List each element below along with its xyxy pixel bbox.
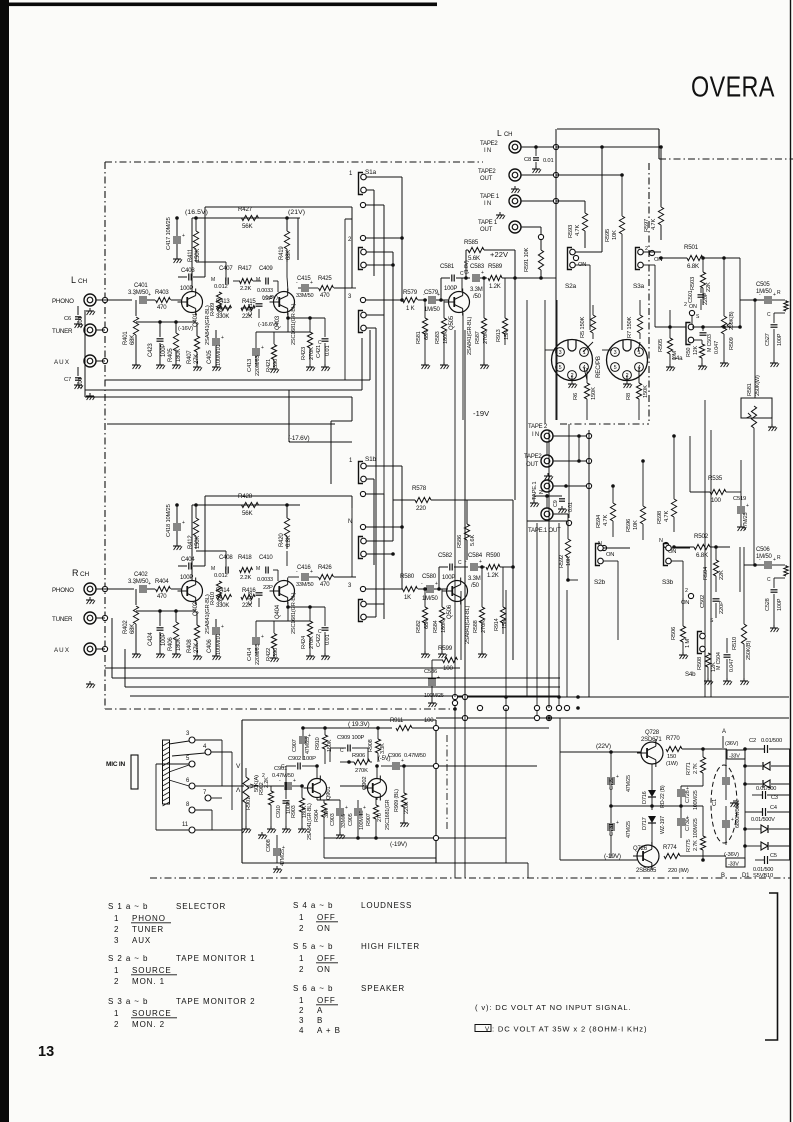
resistor R416 22K xyxy=(241,588,256,609)
svg-text:C8: C8 xyxy=(524,157,531,163)
svg-text:1M/50: 1M/50 xyxy=(424,307,441,313)
wire tape1in L to R593 xyxy=(556,200,585,202)
resistor R903 180K xyxy=(291,784,308,833)
resistor R406 180K xyxy=(168,611,182,658)
svg-text:2SA841(GR·BL): 2SA841(GR·BL) xyxy=(465,606,471,644)
svg-text:2SA841(GR-BL): 2SA841(GR-BL) xyxy=(467,317,473,355)
resistor R580 1K xyxy=(393,573,424,601)
resistor R587 270K xyxy=(475,276,489,369)
svg-text:C519: C519 xyxy=(733,496,746,502)
ground under AUX R xyxy=(86,681,95,688)
capacitor C907 47M/25 xyxy=(292,726,311,760)
svg-text:+: + xyxy=(437,675,440,681)
S1a feed wires down xyxy=(383,330,385,430)
node N ON S3b xyxy=(659,538,676,555)
svg-text:47M/25: 47M/25 xyxy=(305,737,311,754)
svg-text:OFF: OFF xyxy=(317,954,336,963)
svg-text:R904: R904 xyxy=(314,809,320,822)
diode D1b xyxy=(745,780,790,788)
capacitor C408 0.012 xyxy=(211,555,233,579)
svg-text:+: + xyxy=(435,581,438,587)
resistor R583 180K xyxy=(435,300,449,369)
svg-text:+: + xyxy=(221,335,224,341)
resistor R408 27K xyxy=(187,611,202,660)
svg-text:A U X: A U X xyxy=(54,647,69,654)
svg-text:100P: 100P xyxy=(444,286,457,292)
svg-text:C505: C505 xyxy=(756,282,770,288)
legend S2 item 2 MON 1 xyxy=(114,977,165,986)
svg-text:L: L xyxy=(497,128,502,138)
svg-text:100M/25: 100M/25 xyxy=(693,790,699,810)
svg-text:250K(B): 250K(B) xyxy=(746,641,752,660)
legend S6 item 1 OFF xyxy=(299,996,338,1005)
svg-text:2: 2 xyxy=(114,1020,119,1029)
svg-text:R506: R506 xyxy=(671,627,677,640)
svg-text:100P: 100P xyxy=(161,344,167,357)
svg-text:0.47M/50: 0.47M/50 xyxy=(272,773,294,779)
label -36V xyxy=(724,852,739,858)
capacitor C528 100P xyxy=(765,577,785,632)
resistor R593 4.7K xyxy=(568,201,588,248)
svg-text:R535: R535 xyxy=(708,475,723,482)
L preamp feedback top wire xyxy=(205,207,352,262)
switch S2a xyxy=(565,248,577,291)
svg-text:C502: C502 xyxy=(700,595,706,608)
resistor R428 56K xyxy=(238,493,259,517)
label MIC IN xyxy=(106,761,126,768)
resistor R508 12K xyxy=(697,653,717,685)
capacitor C729 47M/25 xyxy=(607,750,632,808)
svg-text:/50: /50 xyxy=(471,583,480,589)
resistor R911 100 xyxy=(390,718,439,731)
svg-text:/50: /50 xyxy=(473,294,482,300)
svg-text:R420: R420 xyxy=(279,533,285,547)
svg-text:+: + xyxy=(773,557,776,563)
svg-text:R587: R587 xyxy=(475,331,481,344)
svg-text:D716: D716 xyxy=(642,791,648,804)
top bus wire to tape xyxy=(557,129,659,159)
capacitor C417 10M/25 xyxy=(166,216,185,263)
node S1a mid circle xyxy=(360,202,365,207)
svg-text:PHONO: PHONO xyxy=(52,298,74,305)
svg-text:R426: R426 xyxy=(318,565,332,571)
title OVERALL xyxy=(691,70,775,103)
switch S1b section1 xyxy=(359,462,367,484)
power right bus xyxy=(743,747,747,867)
svg-text:(22V): (22V) xyxy=(596,743,611,750)
svg-text:470: 470 xyxy=(320,582,330,588)
jack PHONO L xyxy=(84,294,96,306)
mic pin 4 xyxy=(203,744,232,755)
svg-text:C405: C405 xyxy=(207,350,213,364)
legend S6 item 2 A xyxy=(299,1006,323,1015)
svg-text:Q402: Q402 xyxy=(193,601,199,616)
svg-text:2SC1681(GR·BL): 2SC1681(GR·BL) xyxy=(291,303,297,345)
switch S1a contact 1 label xyxy=(349,169,377,177)
jack AUX L xyxy=(84,355,96,367)
svg-text:2.7K: 2.7K xyxy=(693,840,699,851)
label (21V) xyxy=(288,209,305,260)
label TAPE1 IN R xyxy=(532,482,545,500)
capacitor C908 47M/25 xyxy=(266,835,286,873)
svg-text:100: 100 xyxy=(711,497,721,504)
label R909 BL xyxy=(394,789,400,812)
svg-text:R: R xyxy=(777,290,781,296)
svg-text:R594: R594 xyxy=(596,514,602,528)
legend S3 item 1 SOURCE xyxy=(114,1009,177,1018)
switch S2b xyxy=(594,544,606,587)
svg-text:C907: C907 xyxy=(292,739,298,752)
svg-text:+: + xyxy=(616,820,619,826)
svg-text:+: + xyxy=(437,292,440,298)
capacitor C580 1M/50 xyxy=(421,573,448,602)
node S1a pos2 circle xyxy=(360,235,365,240)
resistor R405 180K xyxy=(168,322,182,369)
svg-text:TAPE 1: TAPE 1 xyxy=(478,220,498,226)
svg-text:Q505: Q505 xyxy=(449,315,455,330)
jack TAPE1 OUT L xyxy=(509,221,541,233)
S1b wiring xyxy=(352,466,404,619)
resistor R411 150K xyxy=(188,216,201,262)
node TUNER L xyxy=(96,327,108,332)
supply wire 19.3V xyxy=(303,727,392,729)
svg-text:SOURCE: SOURCE xyxy=(132,1009,172,1018)
svg-text:+: + xyxy=(731,774,734,780)
capacitor C901 0.47M/50 xyxy=(256,766,302,790)
capacitor C579 1M/50 xyxy=(423,289,448,313)
switch S3a xyxy=(633,248,645,291)
resistor R417 2.2K xyxy=(238,266,253,292)
capacitor C728 100M/25 xyxy=(677,786,699,810)
node S1b pos2 circle xyxy=(360,524,365,529)
capacitor C909 100P xyxy=(330,735,368,762)
svg-text:OFF: OFF xyxy=(317,913,336,922)
resistor R502 6.8K xyxy=(672,533,730,559)
label TAPE2 OUT L xyxy=(478,169,496,182)
svg-text:C418 10M/25: C418 10M/25 xyxy=(166,504,172,537)
svg-text:47M/25: 47M/25 xyxy=(626,775,632,792)
mic jack hatched bar xyxy=(163,740,170,806)
resistor R8 150K xyxy=(626,368,649,420)
svg-text:C: C xyxy=(767,577,771,583)
svg-text:I N: I N xyxy=(532,432,539,438)
svg-text:100M/10: 100M/10 xyxy=(216,345,222,366)
resistor R409 390 xyxy=(210,292,224,316)
svg-text:R578: R578 xyxy=(412,485,427,492)
svg-text:MON. 1: MON. 1 xyxy=(132,977,165,986)
svg-text:22K: 22K xyxy=(719,570,725,580)
svg-text:2SA841(GR·BL): 2SA841(GR·BL) xyxy=(307,803,313,840)
svg-text:SOURCE: SOURCE xyxy=(132,966,172,975)
svg-text:33M/6: 33M/6 xyxy=(341,814,347,828)
label TUNER L xyxy=(52,328,73,335)
resistor R506 1M xyxy=(671,598,691,659)
svg-text:68K: 68K xyxy=(130,335,136,345)
rotary upper wires xyxy=(545,300,557,424)
svg-text:6.8K: 6.8K xyxy=(696,552,709,559)
svg-text:3.3M/50: 3.3M/50 xyxy=(128,290,149,296)
node S1b pos3 circle xyxy=(360,586,365,591)
mic pin 5 xyxy=(169,756,195,767)
resistor R585 5.6K xyxy=(464,239,515,262)
svg-text:0.01: 0.01 xyxy=(543,158,553,164)
label (-16.6V) xyxy=(258,322,278,328)
label -19V psu xyxy=(604,853,621,860)
L CH label xyxy=(71,275,87,285)
label A 36V xyxy=(722,729,738,748)
svg-text:+: + xyxy=(261,345,264,351)
R preamp feedback top wire xyxy=(205,496,352,551)
resistor R413 330K xyxy=(216,299,232,320)
svg-text:C412: C412 xyxy=(248,592,254,605)
capacitor C1 6800M/50x2 xyxy=(711,749,741,845)
bottom dash-dot bus y878 xyxy=(150,877,790,879)
R block lower wires xyxy=(105,618,560,696)
svg-text:M: M xyxy=(211,277,215,283)
svg-text:R770: R770 xyxy=(666,736,680,742)
transistor Q902 xyxy=(362,776,387,801)
svg-text:A: A xyxy=(317,1006,323,1015)
S2a wires xyxy=(575,252,602,330)
vertical x602 xyxy=(600,145,604,252)
legend S3 item 2 MON 2 xyxy=(114,1020,165,1029)
svg-text:220K: 220K xyxy=(404,801,410,814)
resistor R422 390 xyxy=(266,621,279,662)
svg-text:I N: I N xyxy=(484,201,491,207)
svg-text:1: 1 xyxy=(299,996,304,1005)
svg-text:+: + xyxy=(310,569,313,575)
svg-text:C501: C501 xyxy=(688,290,694,303)
svg-text:S 5 a ~ b: S 5 a ~ b xyxy=(293,942,333,951)
jack TUNER R xyxy=(84,612,96,624)
svg-text:+: + xyxy=(310,280,313,286)
svg-text:+: + xyxy=(345,805,348,811)
wire C403 loop xyxy=(196,262,226,277)
resistor R510 250K(B) xyxy=(732,547,752,685)
svg-text:C528: C528 xyxy=(765,598,771,611)
svg-text:R8: R8 xyxy=(626,393,632,400)
socket REC L xyxy=(552,340,593,381)
svg-text:R581: R581 xyxy=(416,331,422,344)
svg-text:C527: C527 xyxy=(765,333,771,346)
svg-text:R906: R906 xyxy=(352,753,365,759)
ground under PHONO L xyxy=(86,308,95,315)
svg-text:4.7K: 4.7K xyxy=(664,511,670,522)
L preamp internal wires xyxy=(217,262,325,332)
label 2SA841(GRBL) Q402 xyxy=(205,594,211,634)
svg-text:( 19.3V): ( 19.3V) xyxy=(348,721,370,728)
svg-text:ON: ON xyxy=(689,304,697,310)
resistor R423 270K xyxy=(301,318,315,371)
resistor R910 150K xyxy=(315,726,333,764)
svg-text:C: C xyxy=(767,312,771,318)
svg-text:SELECTOR: SELECTOR xyxy=(176,902,226,911)
svg-text:+: + xyxy=(182,520,185,526)
legend S6 item 3 B xyxy=(299,1016,323,1025)
label B D1 S5VB10 xyxy=(721,873,773,879)
switch S1a section3 xyxy=(359,311,367,333)
capacitor C505 1M/50 xyxy=(740,282,785,304)
svg-text:R408: R408 xyxy=(187,639,193,653)
svg-text:R417: R417 xyxy=(238,266,252,272)
resistor R594 4.7K xyxy=(596,484,616,537)
svg-text:C: C xyxy=(318,340,322,346)
svg-text:C403: C403 xyxy=(181,268,195,274)
svg-text:OUT: OUT xyxy=(480,176,493,182)
svg-text:100P: 100P xyxy=(161,633,167,646)
S3b wires xyxy=(671,548,690,610)
switch S1a section2 xyxy=(359,248,367,270)
R section box top xyxy=(107,423,335,425)
resistor R420 6.8K xyxy=(279,503,292,549)
bottom bus y718 xyxy=(436,717,789,719)
capacitor C581 100P xyxy=(439,263,470,302)
svg-text:390: 390 xyxy=(218,594,224,603)
pot R901 50K(A) xyxy=(242,768,260,833)
jack TAPE2 IN L xyxy=(509,141,556,153)
svg-text:1: 1 xyxy=(114,914,119,923)
svg-text:( v): DC VOLT AT NO INPUT: ( v): DC VOLT AT NO INPUT SIGNAL. xyxy=(475,1003,631,1012)
svg-text:Q404: Q404 xyxy=(275,604,281,619)
svg-text:1.2K: 1.2K xyxy=(489,284,501,290)
jack TUNER L xyxy=(84,324,96,336)
svg-text:S1b: S1b xyxy=(365,456,377,463)
svg-text:2: 2 xyxy=(262,773,265,779)
svg-text:220P: 220P xyxy=(719,601,725,614)
legend S1 item 2 TUNER xyxy=(114,925,164,934)
svg-text:2: 2 xyxy=(299,965,304,974)
svg-text:TAPE 1: TAPE 1 xyxy=(480,194,500,200)
label PHONO R xyxy=(52,587,74,594)
svg-text:180K: 180K xyxy=(176,638,182,651)
svg-text:R407: R407 xyxy=(187,350,193,364)
ground TAPE1 IN L xyxy=(496,212,505,219)
resistor R909 220K xyxy=(400,766,410,827)
svg-text:+: + xyxy=(148,581,151,587)
rotary pin wires xyxy=(545,342,640,380)
node AUX L xyxy=(96,358,108,363)
svg-text:R593: R593 xyxy=(568,225,574,238)
svg-text:C402: C402 xyxy=(134,572,148,578)
svg-text:R591 10K: R591 10K xyxy=(524,247,530,272)
svg-text:100P: 100P xyxy=(180,575,193,581)
svg-text:R503: R503 xyxy=(690,277,696,290)
svg-text:150: 150 xyxy=(667,754,676,760)
svg-text:390: 390 xyxy=(218,305,224,314)
svg-text:C421: C421 xyxy=(316,345,322,358)
svg-text:R592: R592 xyxy=(559,555,565,568)
wire tape2in L to R597 xyxy=(556,146,661,148)
svg-text:R775: R775 xyxy=(686,839,692,852)
svg-text:4: 4 xyxy=(299,1026,304,1035)
svg-text:+: + xyxy=(293,778,296,784)
resistor R415 22K xyxy=(241,299,256,320)
svg-text:R586: R586 xyxy=(457,535,463,548)
svg-text:S3b: S3b xyxy=(662,579,674,586)
resistor R907 270 xyxy=(366,798,383,838)
svg-text:S4b: S4b xyxy=(685,671,696,678)
svg-text:R596: R596 xyxy=(626,519,632,532)
capacitor C413 220M/63 xyxy=(247,332,264,376)
svg-text:100M/25: 100M/25 xyxy=(424,693,444,699)
capacitor C405 100M/10 xyxy=(207,330,224,371)
svg-text:R419: R419 xyxy=(279,246,285,260)
wire -17.6V feed xyxy=(289,390,352,484)
svg-text:2.2K: 2.2K xyxy=(240,575,251,581)
main boundary dash-dot left vertical xyxy=(104,162,106,709)
svg-text:TAPE MONITOR 1: TAPE MONITOR 1 xyxy=(176,954,255,963)
svg-text:R421: R421 xyxy=(266,359,272,372)
capacitor C501 220P xyxy=(688,288,709,320)
svg-text:S 1 a ~ b: S 1 a ~ b xyxy=(108,902,148,911)
svg-text:C4: C4 xyxy=(770,805,777,811)
resistor R591 10K xyxy=(515,227,556,280)
transistor Q505 xyxy=(445,289,470,331)
resistor R414 330K xyxy=(216,588,232,609)
switch S4a xyxy=(672,316,694,362)
svg-text:100P: 100P xyxy=(777,333,783,346)
svg-text:+: + xyxy=(182,233,185,239)
label AUX L xyxy=(54,359,69,366)
svg-text:+22V: +22V xyxy=(490,250,508,259)
svg-text:CH: CH xyxy=(78,278,87,285)
corner wire to bus xyxy=(527,424,572,526)
legend S1 item 1 PHONO xyxy=(114,914,171,923)
svg-text:0.01/500V: 0.01/500V xyxy=(751,817,775,823)
svg-text:R412: R412 xyxy=(188,535,194,549)
svg-text:3: 3 xyxy=(114,936,119,945)
svg-text:R580: R580 xyxy=(400,573,415,580)
resistor R412 150K xyxy=(188,503,201,549)
svg-text:MIC IN: MIC IN xyxy=(106,761,126,768)
capacitor C2 0.01/500 xyxy=(745,738,790,753)
vertical wire x527 xyxy=(526,300,528,697)
svg-text:2.7K: 2.7K xyxy=(693,763,699,774)
svg-text:R590: R590 xyxy=(486,552,501,559)
node L preamp bias wire xyxy=(136,320,196,324)
svg-text:(36V): (36V) xyxy=(725,741,738,747)
svg-text:ON: ON xyxy=(606,552,614,558)
svg-text:A: A xyxy=(722,729,726,735)
svg-text:R: R xyxy=(777,555,781,561)
resistor R402 68K xyxy=(123,589,141,658)
svg-text:3.3M: 3.3M xyxy=(468,576,481,582)
label 3 S1a xyxy=(348,294,352,300)
svg-text:C401: C401 xyxy=(134,283,148,289)
resistor R509 250K(B) xyxy=(692,258,742,367)
transistor Q901 xyxy=(304,776,333,801)
svg-text:2SC1681(GR·BL): 2SC1681(GR·BL) xyxy=(291,592,297,634)
capacitor C527 100P xyxy=(765,312,785,367)
wire mic box to psu y728 xyxy=(439,727,549,729)
svg-text:M: M xyxy=(211,566,215,572)
svg-text:(-19V): (-19V) xyxy=(604,853,621,860)
label (1.8V) xyxy=(464,260,470,274)
svg-text:R909 (BL): R909 (BL) xyxy=(394,789,400,812)
svg-text:1: 1 xyxy=(299,954,304,963)
svg-text:11: 11 xyxy=(182,822,189,828)
svg-text:AUX: AUX xyxy=(132,936,151,945)
capacitor C414 220M/63 xyxy=(247,621,264,665)
svg-text:10K: 10K xyxy=(566,556,572,566)
svg-text:R504: R504 xyxy=(703,566,709,580)
supply rail 16.5V-21V xyxy=(185,209,300,291)
label 3 S1b xyxy=(348,583,352,589)
svg-text:R599: R599 xyxy=(438,645,453,652)
svg-text:L: L xyxy=(71,275,76,285)
legend S1 selector heading xyxy=(108,902,226,911)
wire 705 vertical xyxy=(705,400,711,697)
